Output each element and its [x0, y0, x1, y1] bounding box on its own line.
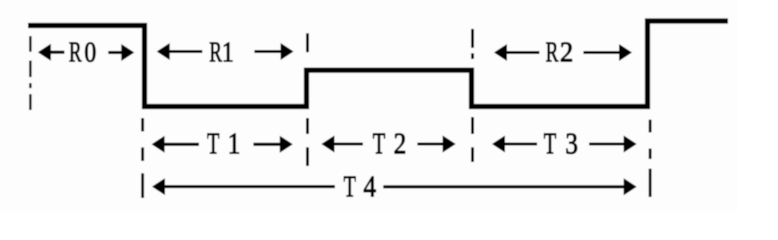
- svg-text:2: 2: [560, 36, 573, 68]
- svg-text:R: R: [69, 37, 82, 69]
- svg-text:4: 4: [363, 170, 376, 204]
- svg-text:2: 2: [394, 127, 407, 161]
- svg-text:3: 3: [565, 127, 578, 161]
- svg-text:R: R: [546, 37, 559, 69]
- svg-text:R: R: [209, 37, 222, 69]
- svg-text:1: 1: [222, 35, 234, 68]
- svg-text:T: T: [343, 169, 356, 203]
- svg-text:0: 0: [84, 35, 96, 68]
- svg-text:T: T: [373, 127, 386, 161]
- svg-text:T: T: [207, 127, 220, 161]
- svg-text:T: T: [544, 127, 557, 161]
- svg-text:1: 1: [228, 127, 241, 161]
